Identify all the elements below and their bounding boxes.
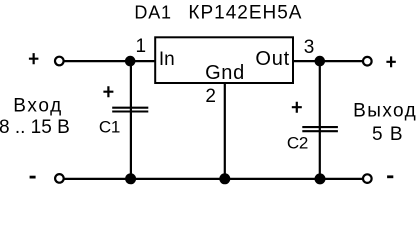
svg-text:5 В: 5 В: [372, 124, 404, 145]
svg-text:1: 1: [135, 36, 146, 57]
svg-text:C2: C2: [287, 134, 308, 153]
svg-text:8 .. 15 В: 8 .. 15 В: [0, 117, 70, 138]
svg-text:КР142ЕН5А: КР142ЕН5А: [188, 2, 302, 23]
terminal input plus: [55, 57, 64, 66]
input polarity -: [30, 176, 36, 179]
junction node bottom right: [315, 173, 326, 184]
svg-text:C1: C1: [99, 118, 120, 137]
terminal output plus: [363, 57, 372, 66]
svg-text:Out: Out: [255, 48, 290, 70]
capacitor C2 polarity +: [292, 102, 302, 113]
wire bottom rail: [64, 178, 364, 180]
svg-text:Выход: Выход: [353, 100, 417, 121]
svg-text:Вход: Вход: [13, 96, 63, 117]
svg-text:Gnd: Gnd: [205, 62, 245, 84]
svg-text:DA1: DA1: [134, 2, 171, 22]
capacitor C1 polarity +: [103, 86, 113, 97]
junction node output: [315, 56, 326, 67]
wire pin 2 ground: [224, 83, 226, 179]
wire input top: [64, 60, 157, 62]
junction node bottom left: [125, 173, 136, 184]
regulator DA1 body: [155, 37, 293, 83]
svg-text:In: In: [159, 49, 175, 70]
output polarity +: [386, 56, 395, 67]
input polarity +: [29, 53, 39, 64]
svg-text:3: 3: [304, 37, 315, 58]
terminal output minus: [363, 174, 372, 183]
svg-text:2: 2: [205, 86, 216, 107]
wire C2 branch: [319, 61, 321, 179]
output polarity -: [387, 175, 393, 178]
capacitor C1 plates: [112, 108, 148, 112]
terminal input minus: [55, 174, 64, 183]
wire output top: [292, 60, 364, 62]
junction node bottom middle: [219, 173, 230, 184]
junction node input: [125, 56, 136, 67]
capacitor C2 plates: [302, 127, 338, 131]
wire C1 branch: [130, 61, 132, 179]
